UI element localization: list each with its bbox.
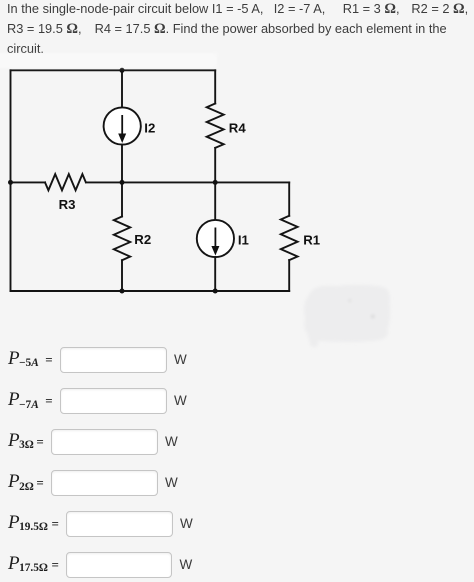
resistor R4 [207,104,224,148]
wire I2-bottom [121,145,123,183]
current source I1 [197,220,234,257]
wire R2-top [121,182,123,216]
arrow of I2 [118,115,126,143]
junction node middle-left [8,180,13,185]
smudge blob [304,285,390,347]
wire R4-bottom [214,148,216,183]
junction node top-I2 [120,68,125,73]
wire left [10,70,12,291]
arrow of I1 [211,228,219,256]
wire I1-top [214,182,216,220]
junction node bottom-R2 [120,289,125,294]
resistor R1 [281,216,298,260]
junction node middle-I2 [120,180,125,185]
resistor R2 [114,217,130,261]
wire middle-left [11,181,46,183]
wire bottom [11,290,290,292]
junction node bottom-I1 [213,289,218,294]
light band above circuit [0,53,217,68]
wire R4-top [214,70,216,103]
wire top [11,69,216,71]
resistor R3 [45,174,86,190]
wire right-lower [288,260,290,291]
current source I2 [104,107,141,144]
wire I1-bottom [214,257,216,291]
junction node middle-I1 [213,180,218,185]
wire I2-top [121,70,123,107]
wire right-upper [288,182,290,215]
wire R2-bottom [121,260,123,291]
wire middle-right [86,181,289,183]
